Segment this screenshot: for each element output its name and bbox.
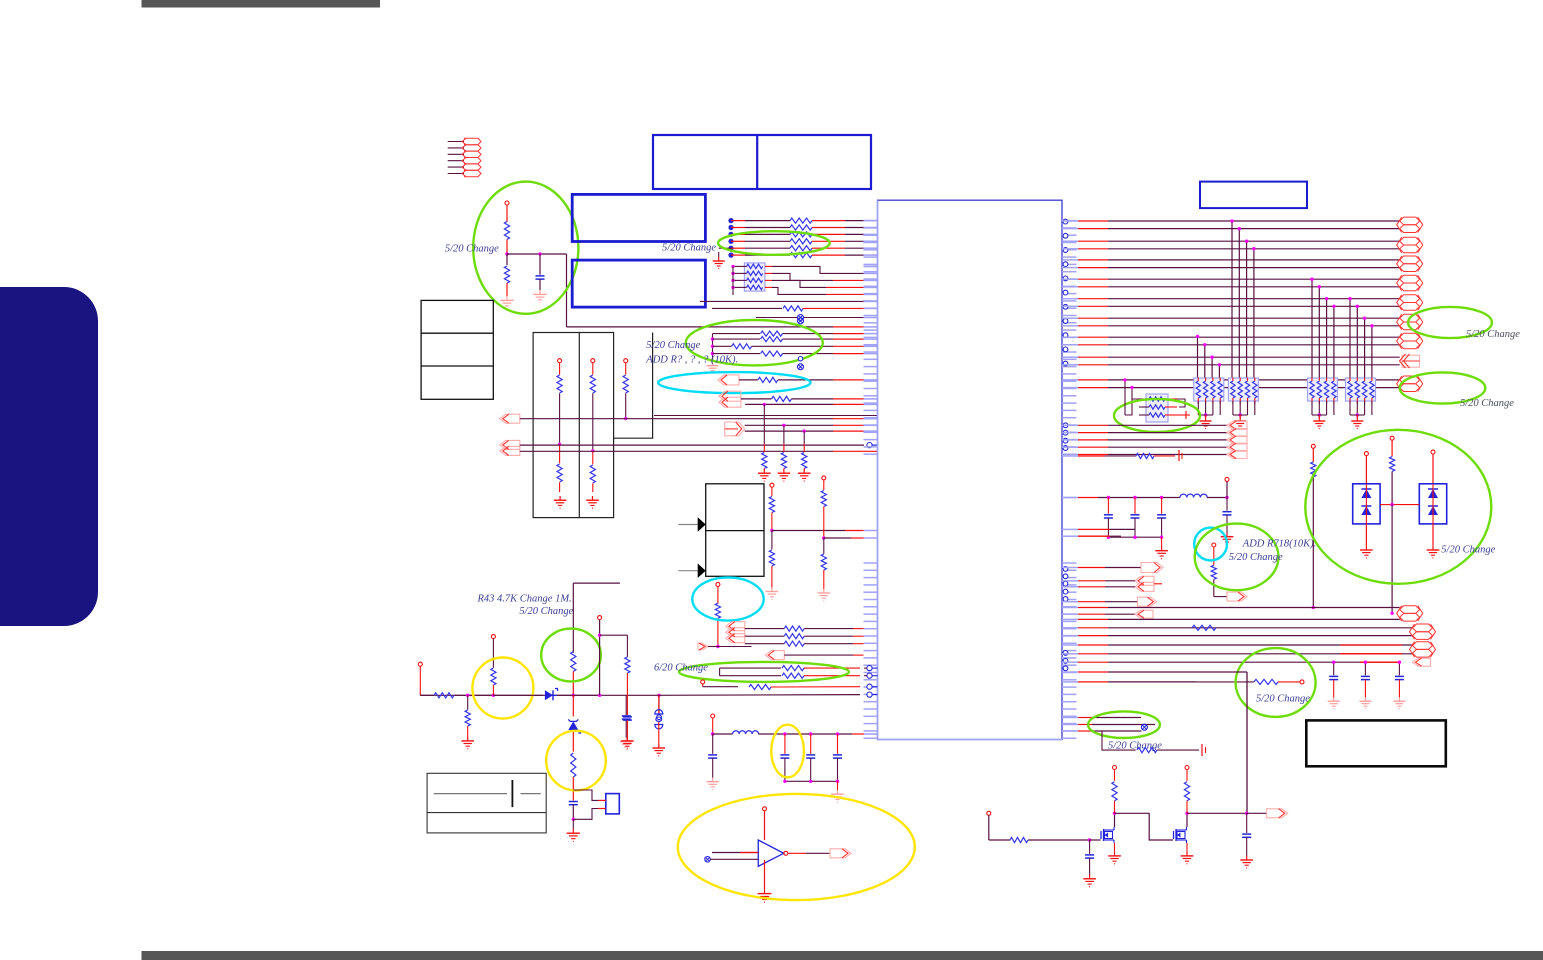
bus taps group 1 [1230, 219, 1255, 378]
ellipse annotation green A19 [1400, 372, 1486, 403]
wires W10 [1062, 425, 1227, 454]
wire row y431 [745, 429, 878, 432]
note box B3 [572, 260, 705, 307]
svg-text:6/20 Change: 6/20 Change [654, 663, 708, 674]
left side tab [0, 287, 98, 626]
svg-text:5/20 Change: 5/20 Change [646, 340, 700, 351]
svg-text:5/20 Change: 5/20 Change [1256, 694, 1310, 705]
svg-text:5/20 Change: 5/20 Change [1466, 329, 1520, 340]
resistor column RC1 [557, 359, 562, 492]
resistor R54 [1196, 679, 1304, 684]
svg-text:ADD R? , ? , ? (10K).: ADD R? , ? , ? (10K). [645, 355, 738, 366]
ellipse annotation yellow A10 [546, 731, 606, 791]
wires W3 cluster rows [745, 626, 864, 646]
ground G-T2b [586, 496, 599, 508]
resistor pack RP1 [731, 263, 772, 295]
crystal Y1 [653, 695, 666, 756]
wire row y415 [654, 415, 878, 417]
LC filter L1 C10-C13 [706, 714, 877, 802]
input resistor R45 and R46 [418, 662, 495, 749]
wire bus rows right [1062, 221, 1400, 388]
resistor R49 capacitor C16 [567, 753, 580, 841]
connector J6 nested [719, 391, 741, 407]
op-amp U2 [705, 807, 851, 902]
note 5/20 change top [662, 243, 716, 254]
resistor R50 to ground [1062, 450, 1182, 461]
ellipse annotation green A2 [686, 320, 823, 365]
ellipse annotation green A1 [473, 182, 578, 314]
wire W4 long row [420, 692, 878, 720]
resistor pack RP5 [1346, 378, 1376, 429]
resistor R48 capacitor C15 [598, 616, 634, 749]
buffer input arrow 1 [678, 517, 705, 531]
IC U1 pin bubbles [1063, 219, 1068, 670]
resistor chain R30/R31 [766, 483, 864, 599]
ground G-T2a [554, 496, 567, 508]
bus taps RP6 [1123, 378, 1133, 415]
connector J35 hex [1410, 624, 1436, 657]
pullup resistor group RN1 [728, 218, 877, 258]
resistor R43 row [701, 680, 878, 690]
resistor R44 [571, 583, 620, 697]
ellipse annotation yellow A11 [678, 794, 915, 900]
resistor pack RP2 [1194, 378, 1224, 429]
capacitors C23-C25 [1328, 661, 1406, 709]
wire W12 vertical [1246, 672, 1248, 813]
junction symbols mid [798, 318, 804, 370]
ellipse annotation green A8 [541, 629, 601, 682]
diode D1 [545, 689, 558, 701]
wire W5 [493, 694, 543, 696]
ground G2 [713, 248, 731, 268]
svg-text:5/20 Change: 5/20 Change [1460, 398, 1514, 409]
dual diode D3 [1353, 452, 1380, 558]
capacitor C14 [620, 695, 633, 749]
IC U1 right pins [1062, 221, 1077, 739]
table T1 [421, 300, 493, 399]
zener D2 [568, 695, 580, 751]
pulldown resistor chain R11 [778, 425, 791, 481]
resistor column RC3 [623, 359, 628, 420]
ellipse annotation yellow A9 [472, 658, 533, 719]
wires W14 [1062, 718, 1155, 732]
wires W13 [1062, 672, 1247, 682]
note box B4 top-right [1200, 182, 1307, 209]
box T2 with resistor columns [533, 333, 653, 518]
connector J32 [1062, 597, 1157, 606]
wire row y399 [741, 396, 878, 401]
ellipse annotation green A4 [718, 231, 830, 255]
bus taps group 4 [1196, 335, 1221, 378]
connector J34 hex [1397, 606, 1423, 621]
note 5/20 change bottom [1108, 741, 1162, 752]
wire red segments W16 [1340, 645, 1402, 662]
connector J36 [1413, 658, 1431, 666]
title bar [142, 0, 381, 8]
bus taps group 2 [1310, 278, 1335, 379]
ellipse annotation green A12 [1114, 399, 1200, 432]
filter C20-C22 L2 [1062, 477, 1233, 558]
note box B1 [653, 135, 871, 189]
note ADD R718 [1242, 539, 1317, 550]
connector J30 [1062, 563, 1163, 573]
note R43 change [476, 594, 571, 605]
connector J1 stack [448, 138, 481, 176]
resistor pack RP6 [1125, 394, 1190, 422]
wires W2 below pack [700, 301, 878, 320]
svg-text:5/20 Change: 5/20 Change [662, 243, 716, 254]
connector J29 stack [1227, 421, 1247, 458]
note ADD R mid [645, 355, 738, 366]
svg-text:5/20 Change: 5/20 Change [1441, 545, 1495, 556]
ellipse annotation green A18 [1408, 307, 1492, 338]
resistor R53 [1192, 625, 1216, 630]
bus taps group 3 [1348, 297, 1373, 378]
wire row y445 [520, 443, 878, 448]
box T3 [706, 484, 764, 577]
wire W6 [557, 694, 601, 697]
footer bar [142, 951, 1543, 960]
connector J10 [573, 790, 619, 819]
ellipse annotation cyan A13 [1194, 528, 1227, 561]
note 6/20 change [654, 663, 708, 674]
connector J33 [1062, 610, 1153, 618]
wire row y451 [520, 450, 878, 452]
wire row y404 [745, 403, 877, 406]
battery BT1 [427, 773, 546, 833]
resistor pack RP4 [1308, 378, 1338, 429]
resistor divider R1/R2 with capacitor C1 [500, 201, 566, 327]
resistor R47 [491, 635, 496, 696]
svg-text:R43 4.7K Change 1M.: R43 4.7K Change 1M. [476, 594, 571, 605]
op-amp U1 body (main IC) [878, 200, 1063, 739]
connector J4 [725, 422, 745, 436]
note box B5 [1306, 720, 1446, 766]
buffer input arrow 2 [678, 564, 705, 578]
wire bus row y326 [567, 326, 878, 328]
note 5/20 change R43 [519, 606, 573, 617]
wire row y425 [745, 424, 878, 427]
pulldown resistor chain R12 [798, 431, 811, 481]
svg-text:5/20 Change: 5/20 Change [445, 244, 499, 255]
wire rows W11 [1062, 608, 1413, 663]
IC U1 left pins [864, 221, 878, 739]
svg-text:5/20 Change: 5/20 Change [1229, 552, 1283, 563]
connector J2 [500, 414, 878, 423]
resistors R41/R42 rows [720, 666, 878, 679]
connector J9 [765, 651, 863, 660]
ellipse annotation green A17 [1088, 711, 1160, 738]
ellipse annotation green A14 [1195, 524, 1279, 591]
crossover wires W1 [772, 266, 878, 294]
ellipse annotation yellow A7 [771, 725, 804, 778]
transistor Q1 [1101, 766, 1173, 864]
output connector J37 capacitor C27 [1240, 809, 1287, 868]
ellipse annotation cyan A3 [658, 372, 810, 393]
ellipse annotation green A6 [679, 662, 849, 682]
note box B2 [572, 194, 705, 241]
connector J3 nested [500, 440, 520, 455]
resistor R40 [715, 582, 720, 648]
resistor R718 [1211, 543, 1247, 601]
note 5/20 change r2 [1460, 398, 1514, 409]
connector J8 [698, 643, 752, 650]
note 5/20 change midright [1256, 694, 1310, 705]
svg-text:ADD R718(10K).: ADD R718(10K). [1242, 539, 1317, 550]
wires W15 [1062, 529, 1135, 536]
note 5/20 change r718 [1229, 552, 1283, 563]
note 5/20 change left [445, 244, 499, 255]
dual diode D4 [1419, 450, 1446, 558]
ellipse annotation cyan A5 [692, 577, 763, 620]
connector J7 nested [726, 622, 745, 643]
connectors J20-J28 stack [1397, 217, 1423, 391]
note 5/20 change diode [1441, 545, 1495, 556]
added resistors R20-R23 group [707, 331, 878, 373]
pulldown resistor chain R10 [758, 404, 771, 481]
note 5/20 change r1 [1466, 329, 1520, 340]
ellipse annotation green A16 [1236, 648, 1316, 717]
resistor R52 [1311, 444, 1316, 609]
transistor Q2 [1174, 766, 1249, 864]
resistor column RC2 [590, 359, 595, 492]
resistor R51 center [1380, 436, 1419, 615]
connector J5 with resistor R24 [718, 375, 878, 385]
note 5/20 change mid [646, 340, 700, 351]
ellipse annotation green A15 [1305, 430, 1491, 584]
resistor pack RP3 [1228, 378, 1258, 429]
resistor chain R32/R33 [818, 476, 864, 601]
resistor R55 to ground [1102, 731, 1206, 756]
connector J31 nested [1062, 576, 1162, 591]
svg-text:5/20 Change: 5/20 Change [519, 606, 573, 617]
gate resistor R56 capacitor C26 [987, 811, 1101, 886]
